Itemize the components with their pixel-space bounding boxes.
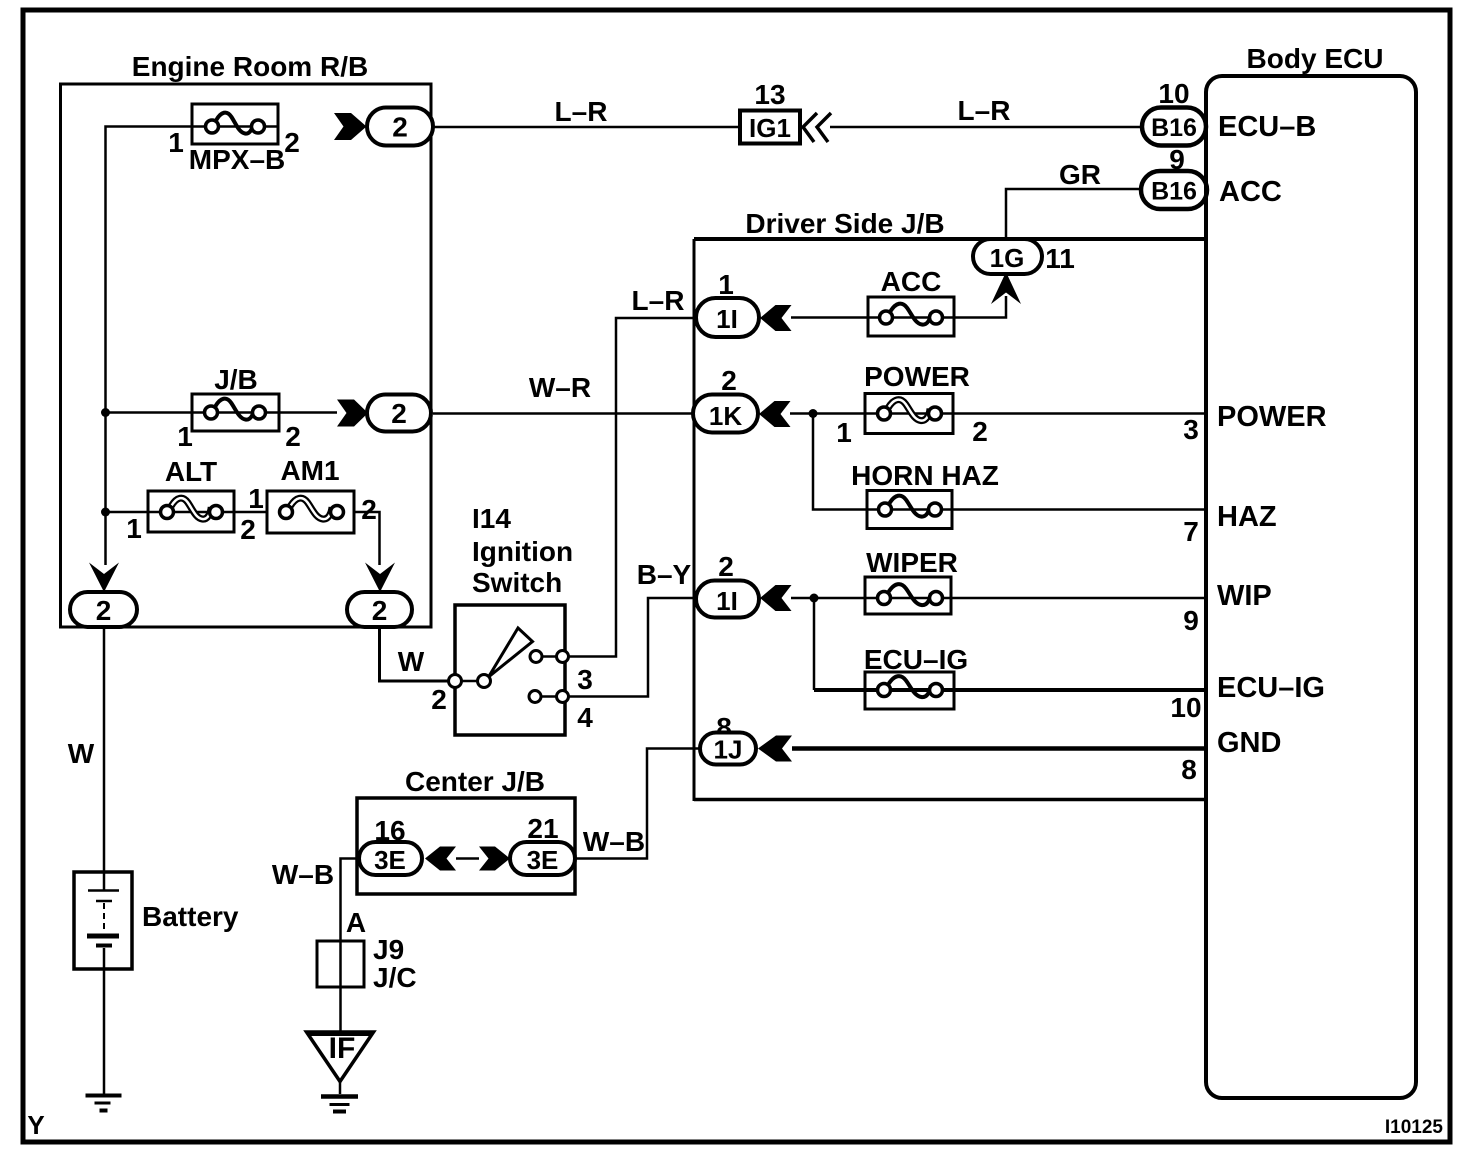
arrow into 1I (ACC row) [760,305,792,331]
svg-text:HORN HAZ: HORN HAZ [851,460,999,491]
svg-text:IF: IF [329,1032,356,1065]
svg-text:GR: GR [1059,159,1101,190]
svg-text:WIPER: WIPER [866,547,958,578]
ground (IF) [321,1097,358,1112]
wire junction down to HORN HAZ row [813,414,1206,510]
junction connector J9 J/C [317,934,417,993]
wire W-B from 3E 16 down to J9 [341,859,360,1033]
wire battery to ground [103,969,106,1094]
svg-text:W: W [68,738,95,769]
svg-text:POWER: POWER [1217,401,1327,433]
svg-text:Engine Room R/B: Engine Room R/B [132,51,368,82]
svg-text:1K: 1K [709,401,742,431]
svg-text:ALT: ALT [165,456,217,487]
svg-text:W–R: W–R [529,372,591,403]
svg-text:A: A [346,907,366,938]
svg-text:Center J/B: Center J/B [405,766,545,797]
svg-text:Body ECU: Body ECU [1247,43,1384,74]
ignition switch I14 [431,503,593,735]
svg-text:1I: 1I [716,304,738,334]
svg-text:Driver Side J/B: Driver Side J/B [745,208,944,239]
wire W to ignition switch [380,627,451,681]
wire ACC fuse to 1G [954,296,1006,318]
fuse ECU-IG [864,644,968,709]
wire L-R to IG1 [433,126,740,129]
block Driver Side J/B [694,208,1206,801]
svg-text:10: 10 [1170,692,1201,723]
svg-text:2: 2 [431,684,447,715]
svg-text:L–R: L–R [958,95,1011,126]
wire ECU-IG row (thick) [814,688,1206,692]
connector IG1 pin 13 [740,79,800,144]
svg-text:3: 3 [1183,414,1199,445]
svg-text:2: 2 [972,416,988,447]
svg-text:2: 2 [721,365,737,396]
connector 2 (J/B output) [367,395,431,432]
svg-text:B16: B16 [1151,114,1197,142]
svg-text:I10125: I10125 [1385,1117,1444,1138]
junction J/B row [101,408,110,417]
arrow into 1K [759,401,791,427]
connector B16 pin 10 (ECU-B) [1142,78,1206,146]
svg-text:MPX–B: MPX–B [189,144,285,175]
connector B16 pin 9 (ACC) [1141,144,1207,209]
fuse J/B [105,364,337,452]
svg-text:7: 7 [1183,516,1199,547]
svg-text:1: 1 [248,483,264,514]
wire W-B from 1J down to Center J/B [575,749,700,859]
svg-text:9: 9 [1183,605,1199,636]
arrow into 1J [758,736,792,762]
svg-text:J/B: J/B [214,364,258,395]
connector 3E pin 21 [510,813,575,875]
ground (battery) [86,1096,122,1111]
svg-text:2: 2 [361,494,377,525]
svg-text:21: 21 [527,813,558,844]
battery [74,872,239,969]
wire GR from 1G to B16 pin 9 [1006,189,1141,241]
wire L-R from IG1 to B16 [830,126,1142,129]
svg-text:Ignition: Ignition [472,536,573,567]
svg-text:8: 8 [1181,754,1197,785]
fuse POWER [864,361,970,434]
svg-text:11: 11 [1045,243,1075,274]
junction WIPER row [810,594,819,603]
fuse WIPER [865,547,958,614]
svg-text:4: 4 [577,702,593,733]
svg-text:ECU–IG: ECU–IG [1217,672,1325,704]
svg-text:2: 2 [372,595,388,626]
svg-text:B–Y: B–Y [637,559,692,590]
wire W battery feed [103,627,106,872]
svg-text:L–R: L–R [632,285,685,316]
svg-text:B16: B16 [1151,178,1197,206]
svg-text:1J: 1J [714,735,743,765]
svg-text:1: 1 [718,269,734,300]
block Body ECU [1206,43,1416,1098]
svg-text:I14: I14 [472,503,511,534]
connector 1I pin 2 (WIPER row) [696,551,759,618]
chevron arrows at IG1 [803,113,831,142]
arrow into 1I (WIPER row) [760,585,792,611]
svg-text:1: 1 [177,421,193,452]
arrow into connector 2 (J/B row) [337,400,368,427]
connector 1I pin 1 (ACC row) [696,269,759,337]
svg-text:2: 2 [392,112,408,143]
svg-text:W–B: W–B [272,859,334,890]
wire left bus from MPX-B pin 1 down to connector [106,127,193,566]
svg-text:10: 10 [1158,78,1189,109]
fuse AM1 [267,455,377,533]
svg-text:2: 2 [718,551,734,582]
svg-text:AM1: AM1 [280,455,339,486]
svg-text:Y: Y [27,1110,44,1140]
wire AM1 pin 2 down to connector [354,512,380,565]
svg-text:13: 13 [754,79,785,110]
ground point IF triangle [307,1032,374,1082]
connector 3E pin 16 [359,815,422,875]
junction ALT row [101,508,110,517]
svg-text:J9: J9 [373,934,404,965]
svg-text:2: 2 [391,398,407,429]
wire switch pin 3 up to 1I (L-R) [569,318,696,657]
fuse ALT [105,456,267,544]
svg-text:W: W [398,646,425,677]
connector 2 (engine room bottom left) [70,592,137,627]
fuse MPX-B [168,104,300,175]
svg-text:ECU–IG: ECU–IG [864,644,968,675]
fuse ACC [868,266,954,336]
connector 1J pin 8 (GND row) [700,712,756,765]
svg-text:2: 2 [96,595,112,626]
svg-text:WIP: WIP [1217,580,1272,612]
svg-text:GND: GND [1217,727,1281,759]
arrow into connector 2 (MPX-B row) [334,113,367,140]
svg-text:IG1: IG1 [749,113,791,143]
svg-text:W–B: W–B [583,826,645,857]
connector 2 (MPX-B output) [367,108,433,146]
svg-text:1I: 1I [716,586,738,616]
wire POWER row [790,412,1206,415]
svg-text:L–R: L–R [555,96,608,127]
wire GND row (thick) [792,746,1206,751]
wire IF to ground [339,1081,342,1094]
wire WIPER row [791,597,1206,600]
wire junction down to ECU-IG row [813,598,816,690]
arrow up into 1G [991,272,1021,304]
svg-text:Switch: Switch [472,567,562,598]
fuse HORN HAZ [851,460,999,529]
arrow into 3E 21 [479,847,510,871]
svg-text:ECU–B: ECU–B [1218,111,1316,143]
svg-text:POWER: POWER [864,361,970,392]
svg-text:2: 2 [240,514,256,545]
svg-text:2: 2 [285,421,301,452]
svg-text:2: 2 [284,127,300,158]
svg-text:1G: 1G [990,243,1025,273]
junction POWER row [809,409,818,418]
arrow down into connector 2 (battery feed) [89,563,119,593]
svg-text:3: 3 [577,664,593,695]
svg-text:3E: 3E [374,845,406,875]
svg-text:1: 1 [836,417,852,448]
block Engine Room R/B [61,51,432,627]
connector 2 (engine room bottom right) [347,592,412,627]
connector 1G pin 11 [973,239,1075,274]
svg-text:1: 1 [126,513,142,544]
svg-text:HAZ: HAZ [1217,501,1277,533]
wire arrow to ACC fuse [791,316,868,319]
wire switch pin 4 to 1I (B-Y) [569,598,696,697]
wire W-R to 1K [433,412,693,415]
svg-text:1: 1 [168,127,184,158]
svg-text:J/C: J/C [373,962,417,993]
block Center J/B [357,766,575,894]
svg-text:ACC: ACC [1219,176,1282,208]
arrow into 3E 16 [425,847,456,871]
svg-text:3E: 3E [527,845,559,875]
svg-text:Battery: Battery [142,901,239,932]
arrow down into connector 2 (AM1 feed) [365,563,395,593]
svg-text:ACC: ACC [881,266,942,297]
connector 1K pin 2 (POWER row) [693,365,758,433]
wire between arrows [456,857,479,860]
